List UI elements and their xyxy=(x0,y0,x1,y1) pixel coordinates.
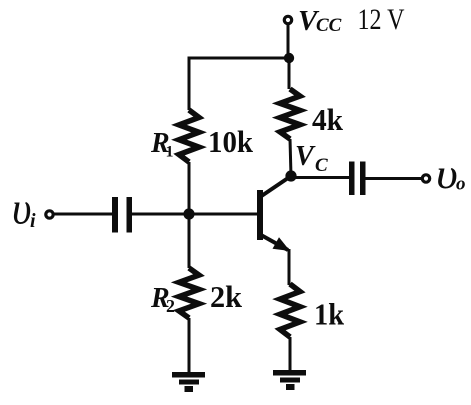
svg-text:1k: 1k xyxy=(314,297,345,332)
svg-text:C: C xyxy=(315,155,328,176)
svg-text:i: i xyxy=(30,210,36,232)
svg-text:1: 1 xyxy=(166,144,174,161)
svg-text:o: o xyxy=(456,174,466,195)
svg-text:2: 2 xyxy=(166,296,175,316)
svg-text:12 V: 12 V xyxy=(358,3,405,36)
svg-text:10k: 10k xyxy=(208,124,254,159)
svg-text:V: V xyxy=(295,141,316,172)
svg-text:υ: υ xyxy=(12,184,32,233)
svg-text:CC: CC xyxy=(316,15,342,36)
svg-text:2k: 2k xyxy=(210,279,243,314)
svg-text:4k: 4k xyxy=(312,102,344,137)
svg-text:υ: υ xyxy=(436,150,458,197)
